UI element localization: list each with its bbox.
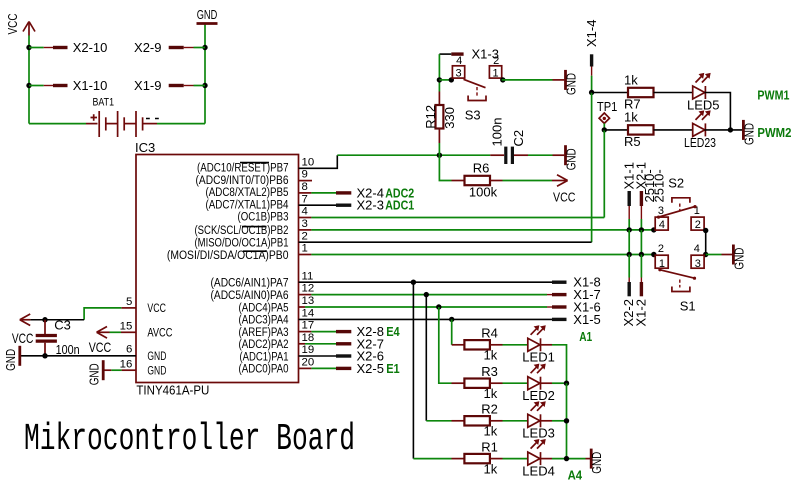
wire R6 to VCC: [503, 180, 553, 182]
node junction S3 contact 1: [500, 77, 505, 82]
svg-text:1k: 1k: [484, 461, 498, 476]
connector pin X2-10: [29, 40, 107, 55]
svg-text:LED5: LED5: [687, 97, 720, 112]
svg-text:GND: GND: [87, 363, 102, 385]
svg-text:E4: E4: [386, 325, 400, 339]
wire VCC row left: [30, 319, 84, 321]
svg-text:LED1: LED1: [522, 350, 555, 365]
wire R7 to LED5: [654, 92, 693, 94]
svg-text:GND: GND: [741, 123, 756, 145]
node junction pin13 / LED2 column: [436, 304, 441, 309]
connector pin X2-7: [336, 336, 384, 351]
pin 8 wire to X2-4: [299, 192, 337, 194]
svg-text:PWM1: PWM1: [757, 89, 789, 103]
svg-text:(ADC5/AIN0)PA6: (ADC5/AIN0)PA6: [211, 290, 289, 302]
pin 18 wire to X2-7: [299, 343, 337, 345]
switch S3: [452, 55, 501, 122]
supply symbol VCC (left arrow, pin5): [12, 314, 34, 346]
node junction pin11 / LED4 column: [411, 280, 416, 285]
wire LED1 to cathode rail: [541, 345, 567, 383]
svg-text:20: 20: [302, 357, 315, 369]
svg-text:X1-10: X1-10: [73, 78, 108, 93]
pin 17 wire to X2-8: [299, 331, 337, 333]
wire pin 4 row: [299, 217, 605, 219]
supply symbol VCC (left arrow, pin15): [89, 327, 112, 355]
svg-text:C3: C3: [54, 318, 71, 333]
svg-text:4: 4: [302, 206, 308, 218]
wire X1-3 down to S3 row: [438, 54, 440, 80]
wire column pin14 to R4: [451, 319, 453, 344]
svg-text:LED3: LED3: [522, 426, 555, 441]
node junction X2-9: [202, 45, 207, 50]
wire S3 to GND: [502, 79, 553, 81]
svg-text:(ADC10/RESET)PB7: (ADC10/RESET)PB7: [197, 163, 289, 175]
node junction R12 bottom / reset: [437, 153, 442, 158]
pin 7 wire to X2-3: [299, 204, 337, 206]
svg-text:1k: 1k: [624, 72, 638, 87]
svg-text:330: 330: [442, 107, 457, 129]
svg-text:18: 18: [302, 332, 315, 344]
svg-text:X2-9: X2-9: [134, 40, 161, 55]
connector pin X1-10: [29, 78, 107, 93]
svg-text:11: 11: [302, 270, 314, 282]
connector pin X1-1: [621, 162, 636, 230]
wire R5 to LED23: [654, 129, 693, 131]
svg-text:3: 3: [302, 218, 308, 230]
connector pin X2-1: [634, 162, 649, 230]
ground GND (pin16): [87, 360, 112, 385]
svg-text:AVCC: AVCC: [147, 328, 172, 340]
LED LED2: [522, 365, 555, 403]
IC3 left pin names: [147, 303, 172, 377]
svg-text:GND: GND: [564, 148, 579, 170]
connector pin X1-2: [634, 255, 649, 327]
battery BAT1: [86, 97, 159, 138]
wire VCC vertical rail top-left: [28, 36, 30, 124]
wire pin 5 (VCC): [84, 308, 136, 320]
svg-text:2: 2: [302, 230, 308, 242]
testpoint TP1: [597, 99, 618, 130]
wire R1 to LED4: [503, 458, 528, 460]
node junction PWM rows: [728, 127, 733, 132]
svg-text:VCC: VCC: [89, 339, 112, 355]
supply symbol VCC (top-left arrow): [5, 14, 35, 36]
svg-text:(SCK/SCL/OC1B)PB2: (SCK/SCL/OC1B)PB2: [195, 225, 289, 237]
node junctions S2 row: [627, 227, 632, 232]
wire LED2 to cathode rail: [541, 382, 567, 384]
svg-text:X1-9: X1-9: [134, 78, 161, 93]
pin 19 wire to X2-6: [299, 355, 337, 357]
svg-text:R6: R6: [473, 161, 490, 176]
svg-text:Mikrocontroller Board: Mikrocontroller Board: [24, 418, 355, 461]
wire X1-4 junction down to pin2 row: [591, 93, 593, 243]
resistor R4, 1k: [452, 326, 503, 363]
svg-text:GND: GND: [564, 73, 579, 95]
wire R4 to LED1: [503, 344, 528, 346]
resistor R6, 100k: [452, 161, 503, 200]
svg-text:6: 6: [126, 344, 132, 356]
switch S2: [655, 176, 704, 232]
svg-text:17: 17: [302, 320, 315, 332]
LED LED3: [522, 402, 555, 440]
node junction C3 bottom: [42, 353, 47, 358]
wire pin 3 row (to S2): [299, 229, 656, 231]
svg-text:1: 1: [302, 243, 308, 255]
svg-text:R12: R12: [423, 105, 438, 129]
connector pin X1-9: [134, 78, 205, 93]
svg-text:ADC1: ADC1: [385, 199, 414, 213]
svg-text:(ADC3)PA4: (ADC3)PA4: [239, 315, 290, 327]
svg-text:VCC: VCC: [12, 330, 34, 346]
svg-text:GND: GND: [197, 7, 218, 22]
ground GND (left, pin6): [3, 346, 20, 371]
wire R2 to LED3: [503, 420, 528, 422]
svg-text:13: 13: [302, 295, 315, 307]
connector pin X1-7: [552, 287, 601, 302]
IC3 right pin names: [167, 163, 289, 376]
svg-text:S3: S3: [465, 107, 481, 122]
node junction TP1 / R5 row: [602, 127, 607, 132]
connector pin X1-3: [439, 47, 499, 62]
svg-text:TP1: TP1: [597, 99, 618, 114]
wire pin10 to reset net: [299, 155, 338, 168]
wire S3 row: [439, 79, 453, 81]
svg-text:7: 7: [302, 193, 308, 205]
node junction pin14 / LED1 column: [449, 317, 454, 322]
node junction C3 top: [42, 317, 47, 322]
svg-text:2: 2: [695, 219, 701, 231]
LED LED4: [522, 440, 555, 478]
svg-text:IC3: IC3: [135, 140, 155, 155]
svg-text:9: 9: [302, 169, 308, 181]
resistor R7, 1k: [624, 72, 654, 111]
svg-text:100k: 100k: [469, 184, 498, 199]
ground GND (C2 right): [553, 145, 579, 170]
wire reset net horizontal (RESET row): [337, 154, 490, 156]
svg-text:2510-: 2510-: [652, 169, 667, 202]
wire LED3 to cathode rail: [541, 420, 567, 422]
svg-text:4: 4: [456, 55, 462, 67]
connector pin X1-4: [584, 20, 599, 93]
ground GND (LED ladder): [586, 449, 605, 474]
node junctions S1 row: [627, 252, 632, 257]
connector pin X2-9: [134, 40, 205, 55]
node junction X1-9: [202, 83, 207, 88]
svg-text:100n: 100n: [490, 118, 505, 147]
svg-text:GND: GND: [3, 349, 18, 371]
node junction cathode rail LED4: [564, 456, 569, 461]
svg-text:5: 5: [126, 296, 132, 308]
node junction X1-4 / R7 row: [589, 90, 594, 95]
wire LED4 to GND: [541, 458, 586, 460]
ground GND (S1 right): [722, 245, 747, 270]
svg-text:A1: A1: [579, 330, 592, 344]
wire pin 12 row: [299, 294, 553, 296]
svg-text:X1-5: X1-5: [573, 312, 600, 327]
svg-text:R1: R1: [481, 439, 498, 454]
resistor R12, 330: [423, 80, 457, 155]
svg-text:(MOSI/DI/SDA/OC1A)PB0: (MOSI/DI/SDA/OC1A)PB0: [167, 250, 289, 262]
connector pin X2-4, net ADC2: [336, 185, 414, 200]
wire cathode rail: [566, 383, 568, 458]
svg-text:BAT1: BAT1: [93, 97, 115, 109]
svg-text:2: 2: [493, 55, 499, 67]
connector pin X2-2: [621, 255, 636, 327]
svg-text:R2: R2: [481, 402, 498, 417]
svg-text:S2: S2: [668, 176, 684, 191]
wire X1-1/X2-1 columns between rows: [628, 230, 630, 255]
svg-text:VCC: VCC: [5, 14, 20, 35]
node junction S3 row left: [437, 77, 442, 82]
node junction cathode rail LED2: [564, 381, 569, 386]
svg-text:C2: C2: [511, 130, 526, 147]
node junction S1 out: [703, 252, 708, 257]
svg-text:R4: R4: [481, 326, 498, 341]
connector pin X2-3, net ADC1: [336, 198, 414, 213]
node junction X2-10: [26, 45, 31, 50]
resistor R2, 1k: [452, 402, 503, 439]
LED LED23: [684, 111, 716, 149]
svg-text:16: 16: [120, 358, 133, 370]
wire LED5 to corner: [705, 93, 731, 130]
svg-text:LED23: LED23: [684, 135, 716, 150]
svg-text:3: 3: [695, 258, 701, 270]
svg-text:(ADC2)PA2: (ADC2)PA2: [239, 339, 289, 351]
svg-text:1k: 1k: [484, 424, 498, 439]
IC3 left pin numbers: [120, 296, 133, 370]
wire pin 2 row: [299, 241, 592, 243]
svg-text:GND: GND: [147, 351, 166, 363]
supply symbol VCC (right arrow): [552, 175, 576, 205]
IC3 right pin numbers: [302, 156, 315, 368]
wire pin 15 (AVCC): [110, 331, 137, 333]
svg-text:12: 12: [302, 283, 315, 295]
svg-text:10: 10: [302, 156, 315, 168]
wire LED23 to GND junction: [705, 129, 743, 131]
svg-text:X2-10: X2-10: [73, 40, 108, 55]
svg-text:X2-3: X2-3: [357, 198, 384, 213]
svg-text:(ADC7/XTAL1)PB4: (ADC7/XTAL1)PB4: [206, 199, 290, 211]
LED LED5: [687, 74, 720, 112]
wire pin 16 (GND): [111, 369, 136, 371]
svg-text:1k: 1k: [484, 348, 498, 363]
svg-text:GND: GND: [731, 248, 746, 270]
pin 20 wire to X2-5: [299, 367, 337, 369]
svg-text:X2-5: X2-5: [357, 361, 384, 376]
wire reset to R6 row: [439, 155, 451, 180]
connector pin X2-6: [336, 349, 384, 364]
svg-text:15: 15: [120, 321, 133, 333]
svg-text:4: 4: [659, 219, 665, 231]
node junction pin12 / LED3 column: [424, 292, 429, 297]
svg-text:(OC1B)PB3: (OC1B)PB3: [238, 212, 289, 224]
svg-text:(AREF)PA3: (AREF)PA3: [239, 327, 289, 339]
connector pin X1-6: [552, 300, 601, 315]
svg-text:S1: S1: [680, 298, 696, 313]
resistor R5, 1k: [624, 110, 654, 149]
wire S2 out down to S1 row: [705, 230, 707, 254]
svg-text:1k: 1k: [484, 386, 498, 401]
wire R7 row left: [592, 92, 628, 94]
resistor R3, 1k: [452, 364, 503, 401]
wire pin 13 row: [299, 306, 553, 308]
svg-text:LED2: LED2: [522, 388, 555, 403]
wire GND vertical rail top: [204, 24, 206, 124]
svg-text:1: 1: [492, 68, 498, 80]
ground GND (S3 right): [553, 70, 579, 95]
svg-text:GND: GND: [589, 452, 604, 474]
svg-text:LED4: LED4: [522, 464, 555, 479]
svg-text:PWM2: PWM2: [757, 126, 791, 140]
IC U/IC3 TINY461A-PU body: [135, 140, 299, 398]
svg-text:A4: A4: [568, 468, 583, 482]
svg-text:GND: GND: [147, 366, 166, 378]
node junction S3 contact 3: [449, 77, 454, 82]
svg-text:(ADC1)PA1: (ADC1)PA1: [240, 351, 289, 363]
wire battery row right: [157, 123, 205, 125]
svg-text:4: 4: [694, 243, 700, 255]
wire R5 row left: [604, 129, 628, 131]
svg-text:VCC: VCC: [553, 189, 576, 204]
switch S1: [655, 243, 704, 313]
svg-text:100n: 100n: [56, 342, 80, 357]
svg-text:X1-4: X1-4: [584, 20, 599, 47]
connector pin X2-5, net E1: [336, 361, 400, 376]
svg-text:1k: 1k: [624, 110, 638, 125]
svg-text:(ADC0)PA0: (ADC0)PA0: [239, 364, 289, 376]
LED LED1: [522, 326, 555, 364]
connector pin X1-8: [552, 275, 601, 290]
capacitor C2: [490, 118, 529, 164]
ground GND (PWM2 row): [741, 120, 756, 145]
svg-text:(ADC8/XTAL2)PB5: (ADC8/XTAL2)PB5: [206, 187, 289, 199]
wire TP1 junction down to pin4 row: [603, 130, 605, 218]
wire pin 1 row (to S1): [299, 254, 656, 256]
connector pin X1-5: [552, 312, 601, 327]
svg-text:(ADC9/INT0/T0)PB6: (ADC9/INT0/T0)PB6: [196, 175, 289, 187]
svg-text:R3: R3: [481, 364, 498, 379]
svg-text:X1-2: X1-2: [634, 299, 649, 326]
svg-text:(ADC6/AIN1)PA7: (ADC6/AIN1)PA7: [211, 278, 289, 290]
svg-text:3: 3: [455, 68, 461, 80]
svg-text:1: 1: [659, 258, 665, 270]
svg-text:14: 14: [302, 308, 315, 320]
capacitor C3, 100n: [36, 318, 80, 358]
wire column pin11 to R1: [413, 282, 451, 458]
wire R3 to LED2: [503, 382, 528, 384]
pin 9 stub (n.c.): [299, 180, 313, 182]
node junction X1-10: [26, 83, 31, 88]
svg-text:2: 2: [658, 243, 664, 255]
resistor R1, 1k: [452, 439, 503, 476]
node junction cathode rail LED3: [564, 418, 569, 423]
wire battery row left: [29, 123, 86, 125]
svg-text:8: 8: [302, 181, 308, 193]
wire S1 out to GND: [706, 254, 722, 256]
svg-text:VCC: VCC: [147, 303, 166, 315]
svg-text:TINY461A-PU: TINY461A-PU: [136, 383, 209, 398]
wire pin 11 row: [299, 281, 553, 283]
wire column pin13 to R3: [439, 307, 452, 383]
svg-text:19: 19: [302, 344, 315, 356]
svg-text:R5: R5: [624, 134, 641, 149]
svg-text:E1: E1: [386, 362, 400, 376]
connector pin X2-8, net E4: [336, 324, 400, 339]
wire pin 14 row: [299, 318, 553, 320]
svg-text:(MISO/DO/OC1A)PB1: (MISO/DO/OC1A)PB1: [195, 238, 289, 250]
ground GND (top): [197, 7, 218, 24]
wire C2 to GND: [528, 154, 553, 156]
svg-text:(ADC4)PA5: (ADC4)PA5: [239, 302, 289, 314]
wire column pin12 to R2: [426, 295, 451, 421]
wire pin 6 GND row: [21, 355, 136, 357]
